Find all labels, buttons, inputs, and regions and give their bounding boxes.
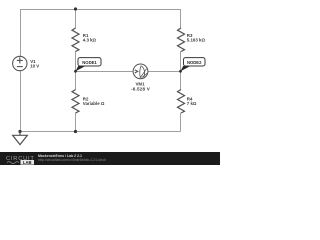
wire branch1 upper bbox=[75, 9, 77, 28]
svg-text:LAB: LAB bbox=[23, 160, 32, 165]
wire middle right bbox=[148, 71, 181, 73]
svg-text:-6.528 V: -6.528 V bbox=[131, 86, 151, 91]
wire branch1 lower bbox=[75, 113, 77, 132]
svg-text:10 V: 10 V bbox=[30, 64, 39, 69]
resistor R3 bbox=[178, 28, 185, 52]
node A junction middle left bbox=[74, 70, 77, 73]
svg-text:7 kΩ: 7 kΩ bbox=[187, 101, 197, 106]
wire branch1 middle bbox=[75, 51, 77, 90]
svg-text:4.3 kΩ: 4.3 kΩ bbox=[83, 38, 97, 43]
node NODE1 flag box bbox=[78, 58, 101, 66]
wire left lower bbox=[20, 71, 22, 132]
node NODE2 flag box bbox=[184, 58, 206, 66]
footer bar bbox=[0, 152, 220, 165]
ground bbox=[13, 132, 28, 145]
resistor R1 bbox=[72, 28, 79, 52]
node B junction middle right bbox=[179, 70, 182, 73]
svg-text:5.163 kΩ: 5.163 kΩ bbox=[187, 38, 206, 43]
resistor R2 bbox=[72, 90, 79, 114]
footer logo waveform bbox=[7, 162, 19, 164]
wire bottom bbox=[20, 131, 181, 133]
wire top bbox=[20, 9, 181, 11]
svg-text:NODE2: NODE2 bbox=[187, 60, 202, 65]
junction bottom left bbox=[18, 130, 21, 133]
wire middle left bbox=[76, 71, 134, 73]
wire branch2 upper bbox=[180, 9, 182, 28]
wire branch2 lower bbox=[180, 113, 182, 132]
resistor R4 bbox=[178, 90, 185, 114]
node NODE1 flag pointer bbox=[76, 66, 86, 71]
node NODE2 flag pointer bbox=[181, 66, 191, 71]
junction top at branch1 bbox=[74, 7, 77, 10]
svg-text:Variable Ω: Variable Ω bbox=[83, 101, 105, 106]
footer logo LAB box bbox=[21, 160, 35, 165]
voltage source V1 bbox=[13, 56, 27, 70]
voltmeter VM1 bbox=[133, 64, 148, 79]
junction bottom at branch1 bbox=[74, 130, 77, 133]
svg-text:NODE1: NODE1 bbox=[82, 60, 97, 65]
wire branch2 middle bbox=[180, 51, 182, 90]
svg-text:http://circuitlab.com/c/4mkr5e: http://circuitlab.com/c/4mkr5e/lab-2-21-… bbox=[38, 158, 106, 162]
wire left upper bbox=[20, 9, 22, 57]
